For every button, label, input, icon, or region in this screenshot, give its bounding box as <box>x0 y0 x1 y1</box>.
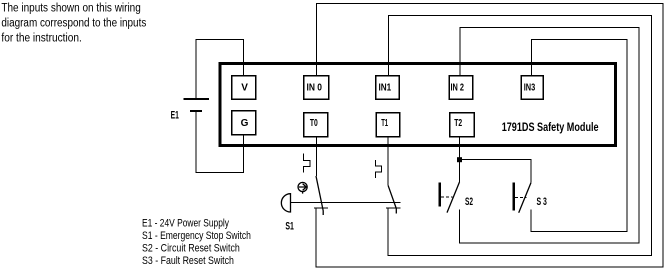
svg-text:S3 - Fault Reset Switch: S3 - Fault Reset Switch <box>142 255 234 267</box>
svg-text:IN3: IN3 <box>524 82 536 93</box>
S2 mechanical dashes <box>441 196 452 198</box>
wire loop contact1 to IN0 <box>316 4 663 268</box>
wire branch to S3 <box>460 160 532 183</box>
svg-text:S2: S2 <box>465 196 473 208</box>
1791DS Safety Module box <box>220 64 616 146</box>
svg-text:T0: T0 <box>310 118 318 129</box>
svg-text:E1: E1 <box>171 109 179 121</box>
svg-text:E1 - 24V Power Supply: E1 - 24V Power Supply <box>142 218 229 230</box>
wire loop S3 to IN3 <box>531 39 627 231</box>
terminal T0 box <box>304 113 328 137</box>
contact S1b fixed bar <box>386 207 400 209</box>
svg-text:T1: T1 <box>381 118 388 129</box>
wire loop contact2 to IN1 <box>388 15 651 255</box>
svg-text:T2: T2 <box>454 118 462 129</box>
terminal IN1 box <box>376 76 400 100</box>
wire V supply top <box>196 40 244 100</box>
wire loop S2 to IN2 <box>460 27 640 243</box>
junction dot T2 node <box>457 157 462 162</box>
S3 mechanical dashes <box>515 196 526 198</box>
S3 actuator bar <box>512 183 515 211</box>
svg-text:S 3: S 3 <box>537 196 547 208</box>
svg-text:for the instruction.: for the instruction. <box>1 33 81 45</box>
S1 twist-release symbol circle <box>298 182 307 191</box>
terminal V box <box>232 76 256 100</box>
svg-text:The inputs shown on this wirin: The inputs shown on this wiring <box>1 2 140 14</box>
svg-text:IN 0: IN 0 <box>307 82 323 93</box>
S3 blade <box>519 183 531 213</box>
svg-text:V: V <box>241 82 248 93</box>
svg-text:S1 - Emergency Stop Switch: S1 - Emergency Stop Switch <box>142 230 251 242</box>
terminal T1 box <box>376 113 400 137</box>
terminal IN0 box <box>304 76 329 100</box>
svg-text:IN 2: IN 2 <box>451 82 465 93</box>
contact S1a fixed bar <box>314 207 328 209</box>
actuator hook 2 <box>376 160 382 178</box>
wire T0 drop <box>315 137 317 176</box>
svg-text:1791DS Safety Module: 1791DS Safety Module <box>502 122 599 134</box>
wire T2 drop <box>459 137 461 182</box>
contact S1b blade <box>388 185 396 213</box>
S1 mechanical link line <box>291 201 401 203</box>
terminal G box <box>232 111 256 135</box>
svg-text:diagram correspond to the inpu: diagram correspond to the inputs <box>1 18 146 30</box>
battery E1 short plate <box>190 110 202 112</box>
svg-text:G: G <box>241 118 249 129</box>
contact S1a blade <box>316 176 323 215</box>
S1 mushroom head <box>281 194 290 212</box>
S1 twist-release arrow <box>299 184 307 194</box>
terminal IN2 box <box>449 76 473 100</box>
terminal T2 box <box>450 113 475 137</box>
actuator hook 1 <box>304 154 310 173</box>
S2 actuator bar <box>438 183 441 207</box>
S2 blade <box>447 182 460 213</box>
svg-text:S2 - Circuit Reset Switch: S2 - Circuit Reset Switch <box>142 243 240 255</box>
wire battery negative to G <box>196 111 244 173</box>
svg-text:S1: S1 <box>285 220 294 232</box>
battery E1 long plate <box>184 98 210 100</box>
terminal IN3 box <box>521 76 543 100</box>
svg-text:IN1: IN1 <box>379 82 392 93</box>
wire T1 drop <box>387 137 389 185</box>
